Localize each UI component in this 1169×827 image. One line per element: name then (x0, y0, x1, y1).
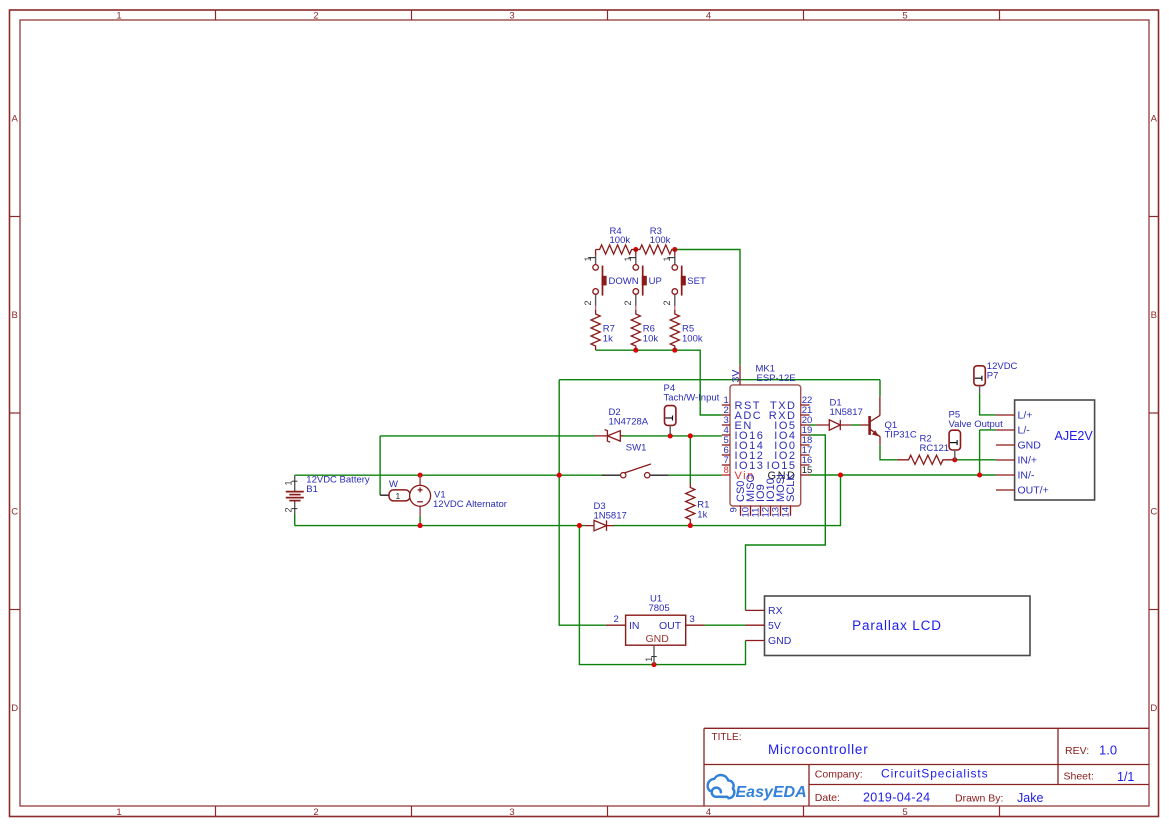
svg-text:P7: P7 (987, 371, 999, 382)
wire ESP IO4 to LCD RX (746, 435, 826, 610)
svg-text:100k: 100k (610, 235, 631, 246)
svg-text:DOWN: DOWN (609, 276, 639, 287)
svg-text:OUT: OUT (659, 620, 682, 632)
AJE2V module box (996, 400, 1095, 500)
resistor R1 1k (686, 484, 710, 524)
wire P7 to AJE2V L/+ (980, 394, 996, 415)
svg-text:SCLK: SCLK (785, 473, 797, 502)
svg-text:1: 1 (583, 256, 593, 261)
svg-text:8: 8 (724, 465, 729, 476)
svg-text:RX: RX (768, 605, 783, 617)
svg-text:4: 4 (706, 10, 711, 21)
right pins 22-15 (801, 405, 810, 475)
svg-text:D: D (11, 703, 18, 714)
svg-text:2: 2 (313, 807, 318, 818)
wire ESP GND to AJE2V IN/- (810, 474, 996, 476)
svg-text:Drawn By:: Drawn By: (955, 793, 1003, 805)
op-amp / MCU module MK1 ESP-12E (722, 364, 812, 518)
svg-text:4: 4 (706, 807, 711, 818)
svg-text:1: 1 (662, 256, 672, 261)
junction node dots (418, 247, 983, 667)
svg-text:C: C (1150, 506, 1157, 517)
resistor R6 10k (631, 310, 658, 350)
svg-text:IN: IN (629, 620, 640, 632)
connector P4 Tach/W-Input (664, 383, 720, 435)
svg-text:TIP31C: TIP31C (885, 430, 917, 441)
diode D3 1N5817 (585, 501, 627, 531)
svg-text:IN/+: IN/+ (1018, 455, 1038, 467)
wire ESP IO5 to D1 (810, 424, 816, 426)
svg-text:AJE2V: AJE2V (1055, 429, 1094, 443)
svg-text:14: 14 (780, 507, 791, 518)
svg-text:3V: 3V (730, 370, 742, 383)
svg-text:GND: GND (768, 635, 792, 647)
regulator U1 7805 (606, 594, 705, 665)
svg-text:Sheet:: Sheet: (1064, 771, 1094, 783)
svg-text:5: 5 (902, 807, 907, 818)
svg-text:2: 2 (313, 10, 318, 21)
resistor R4 100k (596, 226, 636, 254)
svg-text:Microcontroller: Microcontroller (768, 742, 869, 757)
svg-text:GND: GND (1018, 440, 1042, 452)
svg-text:Date:: Date: (815, 792, 840, 804)
svg-text:Company:: Company: (815, 769, 863, 781)
svg-text:2: 2 (614, 614, 619, 625)
wire W to D2 to ESP IO16 (380, 435, 594, 437)
svg-text:1k: 1k (603, 334, 613, 345)
svg-text:B: B (12, 310, 18, 321)
svg-text:10k: 10k (643, 334, 659, 345)
svg-text:SW1: SW1 (626, 443, 647, 454)
wire D3 to R1 to riser (613, 475, 840, 526)
source V1 12VDC Alternator (410, 475, 507, 516)
svg-text:GND: GND (646, 633, 670, 645)
svg-text:Tach/W-Input: Tach/W-Input (664, 393, 720, 404)
svg-text:2: 2 (284, 507, 294, 512)
wire W connector drop (379, 436, 381, 495)
connector P7 12VDC (974, 361, 1018, 394)
resistor R5 100k (670, 310, 703, 350)
svg-text:TITLE:: TITLE: (712, 732, 742, 743)
diode D2 1N4728A (zener) (595, 407, 649, 442)
svg-text:Valve Output: Valve Output (949, 419, 1004, 430)
svg-text:Parallax LCD: Parallax LCD (852, 618, 942, 633)
resistor R7 1k (591, 310, 615, 350)
svg-text:A: A (12, 113, 19, 124)
battery B1 (284, 475, 370, 515)
wire ground rail battery to D3 (295, 525, 585, 527)
svg-text:1: 1 (644, 657, 654, 662)
wire SW1 to ESP Vin (669, 474, 722, 476)
wire R1 bottom (689, 524, 691, 526)
svg-text:IN/-: IN/- (1018, 470, 1035, 482)
svg-text:L/-: L/- (1018, 425, 1031, 437)
svg-text:D: D (1150, 703, 1157, 714)
diode D1 1N5817 (816, 398, 863, 431)
wire Q1 emitter to R2 (880, 445, 897, 460)
svg-text:W: W (389, 479, 398, 490)
svg-text:C: C (11, 506, 18, 517)
svg-text:OUT/+: OUT/+ (1018, 485, 1049, 497)
transistor Q1 TIP31C (861, 396, 917, 445)
svg-text:2: 2 (583, 300, 593, 305)
svg-text:A: A (1151, 113, 1158, 124)
svg-text:1: 1 (116, 807, 121, 818)
svg-text:SET: SET (687, 276, 706, 287)
svg-text:3: 3 (509, 10, 514, 21)
svg-text:UP: UP (649, 276, 662, 287)
svg-text:5: 5 (902, 10, 907, 21)
pushbutton SET (662, 250, 706, 311)
svg-text:100k: 100k (682, 334, 703, 345)
svg-text:ESP-12E: ESP-12E (757, 373, 796, 384)
svg-text:EasyEDA: EasyEDA (736, 784, 807, 801)
svg-text:L/+: L/+ (1018, 410, 1033, 422)
pushbutton DOWN (583, 250, 639, 311)
wire D1 to Q1 base (851, 424, 861, 426)
wire button bottom rail to ESP ADC (596, 350, 722, 415)
svg-text:1.0: 1.0 (1099, 743, 1117, 758)
svg-text:B: B (1151, 310, 1157, 321)
svg-text:2: 2 (662, 300, 672, 305)
wire V1 bottom stub (419, 516, 421, 526)
connector P5 Valve Output (949, 410, 1004, 460)
svg-text:1/1: 1/1 (1117, 770, 1134, 784)
bottom pins 9-14 (741, 506, 791, 516)
svg-text:Jake: Jake (1017, 791, 1043, 805)
Parallax LCD box (746, 596, 1031, 656)
wire Q1 collector drop (879, 380, 881, 397)
svg-text:5V: 5V (768, 620, 781, 632)
wire R1 top (689, 436, 691, 484)
svg-text:1N5817: 1N5817 (594, 510, 627, 521)
wire U1 OUT to LCD 5V (705, 624, 746, 626)
svg-text:7805: 7805 (649, 603, 670, 614)
svg-text:1N4728A: 1N4728A (609, 417, 649, 428)
switch SW1 (602, 443, 669, 478)
svg-text:1N5817: 1N5817 (830, 407, 863, 418)
wire 12V top rail (559, 379, 880, 381)
svg-text:9: 9 (728, 507, 739, 512)
wire 12V vertical to U1 IN (559, 380, 606, 626)
svg-text:100k: 100k (650, 235, 671, 246)
left pins 1-8 (722, 405, 730, 475)
svg-text:1: 1 (284, 480, 294, 485)
svg-text:1k: 1k (697, 509, 707, 520)
wire R2 to AJE2V IN/+ (955, 459, 996, 461)
svg-text:B1: B1 (306, 484, 318, 495)
svg-text:RC121: RC121 (920, 443, 950, 454)
wire top button rail to ESP 3V (675, 250, 740, 366)
svg-text:15: 15 (802, 465, 813, 476)
svg-text:CircuitSpecialists: CircuitSpecialists (881, 767, 989, 781)
pin 3V (top) (739, 365, 741, 385)
wire GND riser to U1 rail (579, 526, 745, 665)
svg-text:REV:: REV: (1065, 745, 1089, 757)
svg-text:1: 1 (396, 491, 401, 501)
svg-text:2: 2 (623, 300, 633, 305)
resistor R3 100k (636, 226, 676, 254)
svg-text:3: 3 (690, 614, 695, 625)
resistor R2 RC121 (897, 434, 955, 465)
svg-text:1: 1 (116, 10, 121, 21)
title block (704, 728, 1149, 806)
connector W (alternator field) (380, 479, 410, 501)
svg-text:12VDC Alternator: 12VDC Alternator (433, 499, 507, 510)
svg-text:3: 3 (509, 807, 514, 818)
pushbutton UP (623, 250, 662, 311)
svg-text:1: 1 (623, 256, 633, 261)
svg-text:2019-04-24: 2019-04-24 (863, 791, 930, 805)
wire AJE2V L/- drop (980, 430, 996, 475)
wire +12V rail battery to SW1 (295, 474, 602, 476)
EasyEDA logo (708, 775, 735, 798)
wire battery bottom stub (294, 514, 296, 526)
